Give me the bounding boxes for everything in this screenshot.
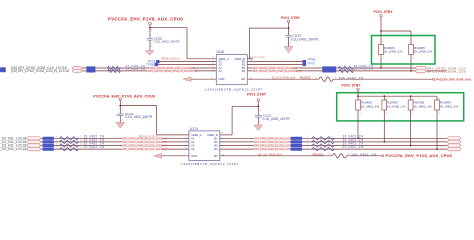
port SPI_CPU0_SOM_D0_K0L_LVC18 (right edge) <box>447 137 461 140</box>
svg-text:1: 1 <box>307 147 308 149</box>
svg-text:33_0402_1%: 33_0402_1% <box>84 145 105 149</box>
svg-text:1: 1 <box>329 154 330 156</box>
wire EN row (bottom) <box>220 155 333 157</box>
svg-text:1: 1 <box>56 136 57 138</box>
wire R10486 to row <box>357 110 359 138</box>
wire R10484 to CLK row <box>380 55 382 69</box>
svg-text:GND: GND <box>219 77 225 81</box>
svg-text:1: 1 <box>413 41 414 43</box>
wire row CS0 right <box>247 70 447 72</box>
node pullup row2 (bottom) <box>383 141 385 143</box>
svg-text:10K_0402_1%: 10K_0402_1% <box>339 76 364 80</box>
svg-text:1: 1 <box>383 41 384 43</box>
svg-text:1: 1 <box>337 66 338 68</box>
svg-text:3: 3 <box>213 66 214 68</box>
net label SPI_CPU0_SOM_D1_K0L_LVC18_R (left) <box>122 141 162 144</box>
svg-text:11: 11 <box>212 57 214 59</box>
node branch to R10485 <box>380 30 382 32</box>
terminal PVCCFA (top EN) <box>433 78 435 80</box>
wire R10489 to row <box>436 110 438 149</box>
wire TP706 to A1 <box>160 61 217 63</box>
power symbol PVCCFA (bottom) <box>119 98 122 101</box>
svg-text:1K_0402_1%: 1K_0402_1% <box>361 104 380 108</box>
svg-text:B2: B2 <box>242 62 246 66</box>
wire power to R10484 <box>380 17 382 44</box>
svg-text:P3V3_STBY: P3V3_STBY <box>253 57 266 59</box>
svg-text:EN: EN <box>214 154 218 158</box>
svg-text:R10552: R10552 <box>300 76 311 80</box>
resistor 33 ohm row3 (right) <box>312 144 335 147</box>
svg-text:2: 2 <box>186 140 187 142</box>
svg-text:1: 1 <box>151 30 152 32</box>
svg-text:2: 2 <box>290 43 291 45</box>
svg-text:U174: U174 <box>190 127 198 131</box>
port SPI_CPU0_SOM_D0_K0L_LVC18 (left) <box>27 137 42 140</box>
svg-text:2: 2 <box>332 136 333 138</box>
ground arrow below C1121 <box>254 125 263 131</box>
resistor R10484 <box>379 45 384 55</box>
svg-text:10K_0402_1%: 10K_0402_1% <box>351 152 376 156</box>
net label box RM row1 (right) <box>291 137 302 140</box>
wire B2 to TP707 <box>247 64 302 66</box>
svg-text:2: 2 <box>383 57 384 59</box>
net label SPI_CPU0_SOM_D0_K0L_LVC18_R (left) <box>122 137 162 140</box>
svg-text:2: 2 <box>213 63 214 65</box>
resistor 33 ohm row2 (right) <box>312 140 335 143</box>
svg-text:2: 2 <box>412 112 413 114</box>
port SPI_CPU0_SOM_D1_K0L_LVC18 (right edge) <box>447 140 461 143</box>
wire row SPI_CPU0_SOM_D1_K0L_LVC18 left <box>41 141 189 143</box>
svg-text:1: 1 <box>186 137 187 139</box>
wire row SPI_CPU0_SOM_D1_K0L_LVC18_R right <box>220 141 447 143</box>
power symbol P3V3_STBY (top right) <box>380 15 383 17</box>
svg-text:A3: A3 <box>191 143 195 147</box>
svg-text:1K_0402_1%: 1K_0402_1% <box>413 104 432 108</box>
svg-text:B4: B4 <box>214 147 218 151</box>
wire power to R10486 <box>357 91 359 100</box>
svg-text:7: 7 <box>184 154 185 156</box>
resistor 33 ohm row3 (left) <box>60 144 79 147</box>
svg-text:B2: B2 <box>214 140 218 144</box>
svg-text:0.1U_0402_16V7R: 0.1U_0402_16V7R <box>154 40 180 44</box>
wire R10488 to row <box>410 110 412 146</box>
svg-text:2: 2 <box>122 120 123 122</box>
svg-text:P3V3_STBY: P3V3_STBY <box>342 83 362 87</box>
wire GND to arrow (bottom IC) <box>162 155 189 157</box>
wire branch to R10485 <box>381 30 411 32</box>
wire junction to VREF_A drop (bottom) <box>120 105 156 107</box>
net label box RM (CLK right) <box>322 66 336 69</box>
svg-text:12: 12 <box>222 155 224 157</box>
svg-text:1: 1 <box>307 140 308 142</box>
wire cap to ground <box>149 40 151 51</box>
net label SPI_CPU0_SOM_CS0_N_LVC18_R (right) <box>252 70 296 73</box>
svg-text:1: 1 <box>307 136 308 138</box>
net label box RM row3 (right) <box>291 144 302 147</box>
IC U174 body <box>189 131 220 161</box>
capacitor C1122 <box>117 113 124 115</box>
wire B1 to TP708 <box>247 61 302 63</box>
node pullup CS0 <box>410 70 412 72</box>
svg-text:2: 2 <box>335 78 336 80</box>
svg-text:2: 2 <box>439 112 440 114</box>
svg-text:1: 1 <box>56 140 57 142</box>
svg-text:2: 2 <box>332 140 333 142</box>
svg-text:SPI_CPU0_SOM_D3_K0L_LVC18_R: SPI_CPU0_SOM_D3_K0L_LVC18_R <box>255 148 297 151</box>
net label SPI_CPU0_SOM_D3_K0L_LVC18_R (right) <box>254 148 290 151</box>
wire row CS0 left <box>82 70 216 72</box>
node junction bottom-left <box>119 105 121 107</box>
wire row SPI_CPU0_SOM_D2_K0L_LVC18 left <box>41 145 189 147</box>
svg-text:SPI_CPU0_SOM_D0_K0L_LVC18_R: SPI_CPU0_SOM_D0_K0L_LVC18_R <box>255 137 297 140</box>
power symbol P3V3_STBY (bottom right) <box>357 88 360 91</box>
svg-text:TP705: TP705 <box>146 62 154 66</box>
wire row SPI_CPU0_SOM_D2_K0L_LVC18_R right <box>220 145 447 147</box>
testpoint TP708 <box>303 60 307 63</box>
resistor 33 ohm row4 (left) <box>60 147 79 150</box>
wire row CLK left <box>82 67 216 69</box>
svg-text:33_0402_1%: 33_0402_1% <box>343 145 364 149</box>
svg-text:PVCCFA_EHV_P1V8_AUX_: PVCCFA_EHV_P1V8_AUX_ <box>436 77 473 81</box>
svg-text:2: 2 <box>386 112 387 114</box>
svg-text:B1: B1 <box>214 136 218 140</box>
svg-text:A2: A2 <box>219 62 223 66</box>
svg-text:1: 1 <box>307 143 308 145</box>
net label SPI_CPU0_SOM_D2_K0L_LVC18_R (right) <box>254 144 290 147</box>
svg-text:2: 2 <box>80 147 81 149</box>
net label SPI_CPU0_SOM_D3_K0L_LVC18_R (left) <box>122 148 162 151</box>
svg-text:4: 4 <box>213 69 214 71</box>
port SPI_CPU0_SOM_CS0 (right) <box>415 69 426 72</box>
wire TP705 to A2 <box>158 64 216 66</box>
resistor 33 ohm (CLK left) <box>108 66 121 69</box>
svg-text:PP1V8_LVC18_A: PP1V8_LVC18_A <box>161 58 180 61</box>
svg-text:SPI_CPU0_SOM_CS0: SPI_CPU0_SOM_CS0 <box>427 69 466 73</box>
wire row SPI_CPU0_SOM_D3_K0L_LVC18 left <box>41 148 189 150</box>
svg-text:U0_SOM_D3_K0L_LVC18: U0_SOM_D3_K0L_LVC18 <box>0 147 26 151</box>
testpoint TP707 <box>303 63 307 66</box>
port SPI_CPU0_SOM_D2_K0L_LVC18 (left) <box>27 144 42 147</box>
svg-text:B4: B4 <box>242 69 246 73</box>
green highlight box top <box>372 36 436 65</box>
resistor 33 ohm (CLK right) <box>339 66 354 69</box>
power symbol PVCCFA (top) <box>149 22 152 25</box>
net label SPI_CPU0_SOM_CLK_LVC18_R (right) <box>252 67 294 70</box>
svg-text:LSF0108RUTR_UQFN12_2X1P7: LSF0108RUTR_UQFN12_2X1P7 <box>205 88 263 92</box>
port SPI_CPU0_SOM_CLK_LVC18 (left) <box>72 66 82 69</box>
net label SPI_CPU0_SOM_D2_K0L_LVC18_R (left) <box>122 144 162 147</box>
svg-text:0.1U_0402_16V7R: 0.1U_0402_16V7R <box>263 117 291 121</box>
svg-text:4: 4 <box>186 147 187 149</box>
net label box RM row2 (right) <box>291 140 302 143</box>
op IC U118 body <box>216 55 247 85</box>
svg-text:A2: A2 <box>191 140 195 144</box>
node pullup row3 (bottom) <box>410 145 412 147</box>
capacitor C1121 <box>255 115 262 117</box>
wire VREF_B drop from P3V3_STBY <box>249 28 251 59</box>
node pullup row4 (bottom) <box>436 148 438 150</box>
svg-text:2: 2 <box>332 143 333 145</box>
node pullup CLK <box>380 67 382 69</box>
svg-text:A4: A4 <box>191 147 195 151</box>
node pullup row1 (bottom) <box>357 137 359 139</box>
svg-text:3: 3 <box>186 144 187 146</box>
sheet ref blue box left edge <box>0 67 6 72</box>
resistor 33 ohm row1 (left) <box>60 137 79 140</box>
net label box RM (CLK left) <box>86 66 95 69</box>
svg-text:0.1U_0402_16V7R: 0.1U_0402_16V7R <box>125 115 153 119</box>
svg-text:SPI_CPU0_SOM_CS0_N_LVC18_R: SPI_CPU0_SOM_CS0_N_LVC18_R <box>253 69 303 73</box>
svg-text:1: 1 <box>122 108 123 110</box>
wire row SPI_CPU0_SOM_D0_K0L_LVC18 left <box>41 137 189 139</box>
ground arrow below C1120 <box>284 47 293 53</box>
svg-text:PVCCFA_EHV_P1V8_AUX_CPU0: PVCCFA_EHV_P1V8_AUX_CPU0 <box>108 16 183 21</box>
net label box RM row3 (left) <box>43 144 54 147</box>
svg-text:1: 1 <box>98 66 99 68</box>
resistor R10485 <box>409 45 414 55</box>
svg-text:PVCCFA_EHV_P1V8_AUX_CPU0: PVCCFA_EHV_P1V8_AUX_CPU0 <box>93 95 155 99</box>
svg-text:2: 2 <box>332 147 333 149</box>
svg-text:VREF_A: VREF_A <box>191 133 202 137</box>
wire GND to arrow (top IC) <box>191 78 216 80</box>
svg-text:SPI_CPU0_SOM_D1_K0L_LVC18_R: SPI_CPU0_SOM_D1_K0L_LVC18_R <box>255 141 297 144</box>
svg-text:U118: U118 <box>217 50 225 54</box>
svg-text:SPI_CPU0_SOM_D0_K0L_LVC18_R: SPI_CPU0_SOM_D0_K0L_LVC18_R <box>123 136 168 140</box>
svg-text:P3V3_STBY: P3V3_STBY <box>281 16 301 20</box>
resistor 33 ohm (CS0 left) <box>108 69 121 72</box>
node branch bottom pullups <box>357 95 359 97</box>
wire R10485 to CS0 row <box>410 55 412 71</box>
svg-text:1K_0402_1%: 1K_0402_1% <box>384 50 403 54</box>
capacitor C1118 <box>147 37 153 39</box>
svg-text:33_0402_1%: 33_0402_1% <box>126 67 146 71</box>
net label box RM row4 (left) <box>43 148 54 151</box>
svg-text:2: 2 <box>80 140 81 142</box>
node junction at C1120 <box>288 27 290 29</box>
svg-text:A1: A1 <box>191 136 195 140</box>
svg-text:05_U13_P3V8_AUX: 05_U13_P3V8_AUX <box>272 76 296 80</box>
svg-text:SPI_CPU0_SOM_D1_K0L_LVC18_R: SPI_CPU0_SOM_D1_K0L_LVC18_R <box>123 140 168 144</box>
wire C1121 to ground <box>257 117 259 125</box>
svg-text:P3V3_STBY: P3V3_STBY <box>247 93 267 97</box>
wire power down to C1121 <box>257 101 259 115</box>
terminal PVCCFA (bottom EN) <box>382 155 384 157</box>
capacitor C1120 <box>286 34 292 36</box>
port SPI_CPU0_SOM_D3_K0L_LVC18 (left) <box>27 147 42 150</box>
svg-text:1: 1 <box>260 110 261 112</box>
svg-text:2: 2 <box>260 122 261 124</box>
net label box RM row2 (left) <box>43 140 54 143</box>
svg-text:1K_0402_1%: 1K_0402_1% <box>440 104 459 108</box>
wire VREF_B drop from P3V3_STBY (bottom) <box>220 134 232 136</box>
svg-text:SPI_CPU0_SOM_CS0_N_LVC18_R: SPI_CPU0_SOM_CS0_N_LVC18_R <box>148 69 198 73</box>
svg-text:05_U13_P3V8_AUX: 05_U13_P3V8_AUX <box>258 152 282 156</box>
wire row CLK right <box>247 67 415 69</box>
svg-text:2: 2 <box>348 154 349 156</box>
port SPI_CPU0_SOM_D1_K0L_LVC18 (left) <box>27 140 42 143</box>
wire C1122 to ground <box>119 116 121 123</box>
node junction at C1121 <box>257 105 259 107</box>
resistor R10489 <box>435 100 440 110</box>
wire VREF_A <box>187 58 216 60</box>
wire power down to cap C1120 <box>288 23 290 36</box>
svg-text:2: 2 <box>151 46 152 48</box>
svg-text:A4: A4 <box>219 69 223 73</box>
wire R10487 to row <box>383 110 385 142</box>
svg-text:13: 13 <box>221 132 223 134</box>
ground arrow below C1118 <box>145 51 154 55</box>
svg-text:R10551: R10551 <box>313 152 324 156</box>
svg-text:P3V3_STBY: P3V3_STBY <box>374 10 394 14</box>
svg-text:1: 1 <box>213 60 214 62</box>
power symbol P3V3_STBY (bottom middle) <box>257 99 260 102</box>
svg-text:SPI_CPU0_SOM_D3_K0L_LVC18_R: SPI_CPU0_SOM_D3_K0L_LVC18_R <box>123 147 168 151</box>
svg-text:1: 1 <box>56 143 57 145</box>
node power junction top-left <box>149 27 151 29</box>
svg-text:1K_0402_1%: 1K_0402_1% <box>387 104 406 108</box>
resistor R10488 <box>408 100 413 110</box>
svg-text:33_0402_1%: 33_0402_1% <box>354 67 374 71</box>
ground arrow left (top IC) <box>183 77 191 82</box>
svg-text:[26] SPI_CPU0_SOM_CS0_N_LVC18: [26] SPI_CPU0_SOM_CS0_N_LVC18 <box>11 69 69 73</box>
svg-text:EN: EN <box>241 77 245 81</box>
net label SPI_CPU0_SOM_CLK_LVC18_R (left) <box>150 67 192 70</box>
wire row SPI_CPU0_SOM_D3_K0L_LVC18_R right <box>220 148 447 150</box>
ground arrow left (bottom IC) <box>154 154 162 159</box>
svg-text:1: 1 <box>316 78 317 80</box>
wire C1120 to ground <box>288 37 290 46</box>
net label box RM (CS0 right) <box>322 69 336 72</box>
resistor R10487 <box>382 100 387 110</box>
svg-text:2: 2 <box>360 112 361 114</box>
wire junction to VREF_A drop <box>150 27 187 29</box>
svg-text:B3: B3 <box>214 143 218 147</box>
net label box RM row1 (left) <box>43 137 54 140</box>
svg-text:6: 6 <box>211 77 212 79</box>
wire power down (bottom) <box>119 100 121 114</box>
green highlight box bottom <box>337 93 464 121</box>
svg-text:0.1U_0402_16V7R: 0.1U_0402_16V7R <box>291 38 319 42</box>
resistor R10486 <box>356 100 361 110</box>
svg-text:2: 2 <box>122 69 123 71</box>
svg-text:TP707: TP707 <box>307 62 315 66</box>
net label SPI_CPU0_SOM_CS0_N_LVC18_R (left) <box>148 70 195 73</box>
svg-text:TP708: TP708 <box>307 58 315 62</box>
resistor 33 ohm (CS0 right) <box>339 69 354 72</box>
svg-text:1: 1 <box>290 31 291 33</box>
net label box RM (CS0 left) <box>86 69 95 72</box>
port SPI_CPU0_SOM_CS0_N_LVC18 (left) <box>72 69 82 72</box>
power symbol P3V3_STBY (top middle) <box>287 20 290 23</box>
resistor 33 ohm row4 (right) <box>312 147 335 150</box>
svg-text:2: 2 <box>413 57 414 59</box>
svg-text:LSF0108RUTR_UQFN12_2X1P7: LSF0108RUTR_UQFN12_2X1P7 <box>181 162 239 166</box>
wire EN row (top) <box>247 78 319 80</box>
svg-text:2: 2 <box>80 136 81 138</box>
resistor 33 ohm row2 (left) <box>60 140 79 143</box>
wire row SPI_CPU0_SOM_D0_K0L_LVC18_R right <box>220 137 447 139</box>
resistor 33 ohm row1 (right) <box>312 137 335 140</box>
svg-text:PVCCFA_EHV_P1V8_AUX_CPU0: PVCCFA_EHV_P1V8_AUX_CPU0 <box>386 153 453 158</box>
wire power to junction <box>149 25 151 38</box>
svg-text:VREF_B: VREF_B <box>207 133 218 137</box>
ground arrow below C1122 <box>116 123 125 129</box>
net label SPI_CPU0_SOM_D0_K0L_LVC18_R (right) <box>254 137 290 140</box>
svg-text:GND: GND <box>191 154 197 158</box>
svg-text:1: 1 <box>56 147 57 149</box>
svg-text:SPI_CPU0_SOM_D2_K0L_LVC18_R: SPI_CPU0_SOM_D2_K0L_LVC18_R <box>255 144 297 147</box>
net label SPI_CPU0_SOM_D1_K0L_LVC18_R (right) <box>254 141 290 144</box>
wire branch across pullups <box>358 95 437 97</box>
port SPI_CPU0_SOM_CLK (right) <box>415 66 426 69</box>
port SPI_CPU0_SOM_D2_K0L_LVC18 (right edge) <box>447 144 461 147</box>
svg-text:2: 2 <box>80 143 81 145</box>
svg-text:1K_0402_1%: 1K_0402_1% <box>414 50 433 54</box>
net label box RM row4 (right) <box>291 148 302 151</box>
port SPI_CPU0_SOM_D3_K0L_LVC18 (right edge) <box>447 147 461 150</box>
svg-text:SPI_CPU0_SOM_D2_K0L_LVC18_R: SPI_CPU0_SOM_D2_K0L_LVC18_R <box>123 143 168 147</box>
